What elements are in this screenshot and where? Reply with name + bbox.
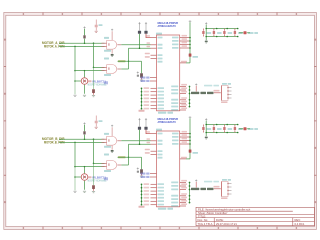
ground [205,41,208,43]
ground [92,192,95,193]
pin stub [150,173,157,175]
connector SVA pins [227,87,231,99]
wire labelled net [118,156,142,158]
connector SVB label [222,179,227,181]
wire to ground [74,71,76,95]
capacitor CB1 lead [95,116,97,121]
svg-text:TKG 4 T.B.A: TKG 4 T.B.A [198,222,213,226]
IC2A value below [158,112,166,114]
gate IC1BB value [104,170,111,172]
gate IC1BB [107,161,117,170]
IC right pins to LED rail [172,35,191,49]
capacitor CB [144,127,147,130]
supply arrow [189,116,192,118]
supply symbol [111,29,113,31]
svg-text:TITLE:: TITLE: [198,214,206,218]
ground [73,191,76,192]
wire to pin [186,62,190,64]
svg-text:REV:: REV: [295,218,301,222]
ground [111,150,114,152]
LEDA3 [223,29,225,37]
pin text [181,157,187,159]
gate IC1AB input pins [102,67,107,70]
pin stub [151,143,157,145]
resistor RA1 lead [84,39,86,44]
diode DB wire [239,128,243,130]
junction [93,67,95,69]
resistor in series [207,188,214,190]
svg-text:ATMEGA328-PU: ATMEGA328-PU [158,24,177,28]
header rail and IC pins [171,84,190,111]
pin text [181,61,187,63]
supply symbol [137,72,139,74]
ground [83,191,86,192]
transistor TA drain wire [84,71,86,78]
junction [84,138,86,140]
wire to connector [214,188,221,190]
resistor RB1 lead [84,135,86,140]
transistor TA [81,78,88,85]
resistor RB3 [189,150,192,153]
supply dot [137,171,139,173]
svg-text:FILE: /home/user/eagle/motor-c: FILE: /home/user/eagle/motor-controller.… [198,208,251,212]
wire vertical from DIR [93,43,95,67]
connector SVA value [221,101,228,103]
LED array rails [205,22,238,40]
gate IC1BA output pin [117,140,121,142]
svg-text:0.4 RC1: 0.4 RC1 [295,222,305,226]
ground [205,137,208,139]
LEDB4 [234,125,236,133]
LEDA3 label [228,32,233,34]
IC left pin stubs [151,151,157,154]
supply symbol [145,22,147,24]
ground net text [139,110,145,112]
IC right pins to LED rail [172,131,191,145]
ground [140,176,143,177]
wire long rail [189,118,191,149]
LEDA1 [202,29,204,37]
capacitor CA [138,31,141,34]
ground [95,31,98,32]
transistor TA gate wire [75,80,81,82]
diode DB [244,127,247,130]
gate IC1AB name [104,58,109,60]
lead [93,93,95,95]
xref flag [141,173,146,175]
IC2B value below [158,208,166,210]
pin wire [180,158,186,160]
diode DA label [248,32,254,34]
LEDA4 label [238,32,243,34]
pin stub [151,37,157,39]
supply symbol [138,22,140,24]
capacitor CA [144,31,147,34]
xref flag blue [104,177,108,180]
connector SVB value [221,197,228,199]
capacitor CA1 label [99,24,103,26]
IC grounded pin group [141,183,164,205]
gate IC1BB output pin [117,164,121,166]
IC2B name [156,129,162,131]
pin stub [150,77,157,79]
faint net text [204,181,212,183]
net label [118,60,126,62]
xref flag blue [104,81,108,84]
wire to IC [129,47,151,49]
resistor RB1 lead [84,125,86,131]
resistor RA3 label [193,56,199,58]
capacitor CA3 [140,73,143,78]
LEDB1 [202,125,204,133]
wire vertical [128,144,130,165]
gate IC1AA [107,40,117,49]
supply symbol [138,118,140,120]
wire to connector [214,92,221,94]
ground [95,127,98,128]
junction [74,142,76,144]
pin wire [180,62,186,64]
title block frame [196,207,314,225]
svg-text:MOSFET-NCHANNEL: MOSFET-NCHANNEL [88,179,107,183]
xref flag [141,176,146,178]
capacitor CB lead [145,120,147,127]
supply symbol [195,84,197,86]
IC grounded pin group [141,87,164,109]
transistor TB [81,174,88,181]
ferrite FB [191,188,199,190]
wire to IC [129,143,151,145]
resistor RB2 [92,185,95,189]
IC2A name [156,33,162,35]
IC2A microcontroller body [157,35,180,111]
connector SVA left edge [221,86,223,101]
transistor TB designator [88,176,92,178]
gate IC1AA input pins [102,43,107,46]
transistor TA designator [88,80,92,82]
wire rail lower [189,153,191,159]
connector SVA body [222,86,229,101]
junction [84,70,86,72]
gate IC1BA input pins [102,139,107,142]
diode DA wire [239,32,243,34]
wire [93,67,95,89]
gate IC1AB output pin [117,68,121,70]
LEDB3 [223,125,225,133]
capacitor CB [138,127,141,130]
LEDB3 label [228,128,233,130]
wire rail lower [189,57,191,63]
diode DB label [248,128,254,130]
wire text [214,90,220,92]
gate IC1BA value [104,146,111,148]
wire gate1 to IC [121,140,150,142]
supply symbol [195,180,197,182]
transistor TA source wire [84,85,86,94]
LEDA1 label [207,32,212,34]
wire gate2 out [121,164,128,166]
capacitor CA1 lead [95,27,97,30]
gate IC1AA value [104,50,111,52]
gate IC1BB input pins [102,163,107,166]
LEDB1 label [207,128,212,130]
junction [74,70,76,72]
connector SVB pins [227,183,231,195]
lead [141,78,143,80]
wire gate2 out [121,68,128,70]
ground [140,80,143,81]
LEDB2 [213,125,215,133]
supply symbol [145,118,147,120]
wire to ground [74,167,76,191]
pin stub [151,133,157,135]
gate IC1AA output pin [117,44,121,46]
junction [139,47,141,49]
gate power wire [111,31,113,40]
wire vertical from PWM [74,142,76,166]
connector SVB left edge [221,182,223,197]
capacitor CB1 [95,121,98,123]
wire DIR input [59,42,105,44]
svg-text:MOSFET-NCHANNEL: MOSFET-NCHANNEL [88,83,107,87]
pin stub [150,176,157,178]
pin stub [151,47,157,49]
gate power wire [111,146,113,150]
svg-text:Doc. No:: Doc. No: [198,218,209,222]
wire gate2 input A [94,162,105,164]
wire vertical from PWM [74,46,76,70]
IC left pin stubs [151,55,157,58]
capacitor CB lead [139,120,141,127]
wire long rail [189,22,191,53]
wire gate2 input B [75,166,105,168]
wire DIR input [59,138,105,140]
ferrite FB [191,92,199,94]
wire vertical [141,61,143,73]
LED array rails [205,118,238,136]
gate IC1AA name [104,37,109,39]
header rail and IC pins [171,180,190,207]
junction [84,166,86,168]
ground [73,95,76,96]
capacitor CA lead [139,24,141,31]
transistor TB gate wire [75,176,81,178]
transistor TB source wire [84,181,86,190]
junction [84,42,86,44]
diode DA stub [247,32,250,34]
diode DB stub [247,128,250,130]
LEDA2 label [217,32,222,34]
wire vertical [141,157,143,169]
LEDB4 label [238,128,243,130]
gate power wire [111,50,113,54]
junction [74,166,76,168]
LEDB2 label [217,128,222,130]
junction [74,46,76,48]
wire to pin [186,158,190,160]
xref flag [141,77,146,79]
ground [92,96,95,97]
junction [74,80,76,82]
lead [93,189,95,191]
svg-text:DATE:: DATE: [216,218,224,222]
IC2B microcontroller body [157,131,180,207]
junction [93,163,95,165]
supply arrow [189,20,192,22]
gate IC1BA [107,136,117,145]
gate IC1AB [107,65,117,74]
junction [128,61,130,63]
capacitor lead to wire [139,34,141,48]
capacitor CA1 [95,25,98,27]
junction [74,176,76,178]
supply symbol [83,26,85,28]
wire text [214,186,220,188]
pin stub [151,44,157,46]
wire gate1 to IC [121,44,150,46]
junction [93,42,95,44]
capacitor lead to IC [146,130,151,134]
junction [128,157,130,159]
capacitor CB1 lead [95,123,97,126]
wire gate2 input B [75,70,105,72]
pin stub [151,140,157,142]
supply symbol [111,125,113,127]
ground [83,95,86,96]
lead [141,174,143,176]
supply lead [195,182,197,188]
capacitor CA1 lead [95,20,97,25]
net label [118,156,126,158]
resistor RA3 [189,54,192,57]
resistor RA1 [83,35,85,38]
LEDA2 [213,29,215,37]
supply symbol [137,168,139,170]
wire vertical from DIR [93,139,95,163]
connector SVA label [222,83,227,85]
pin stub [150,80,157,82]
IC left pin names [145,131,163,158]
wire labelled net [118,60,142,62]
transistor TB drain wire [84,167,86,174]
svg-text:29.07.2014 17:21: 29.07.2014 17:21 [216,222,237,226]
diode DA [244,31,247,34]
wire vertical [128,48,130,69]
junction [139,143,141,145]
wire gate2 input A [94,66,105,68]
ground net text [139,206,145,208]
junction [93,138,95,140]
connector SVB body [222,182,229,197]
wire [93,163,95,185]
capacitor lead to IC [146,34,151,38]
IC left pin names [145,35,163,62]
gate IC1BA name [104,133,109,135]
supply dot [137,75,139,77]
faint net text [204,85,212,87]
capacitor CB1 label [99,120,103,122]
capacitor lead to wire [139,130,141,144]
resistor RB3 label [193,152,199,154]
resistor RA2 [92,89,95,93]
gate power wire [111,127,113,136]
gate IC1AB value [104,74,111,76]
wire PWM input [59,141,105,143]
supply symbol [83,122,85,124]
capacitor CA lead [145,24,147,31]
svg-text:ATMEGA328-PU: ATMEGA328-PU [158,120,177,124]
capacitor CB3 [140,169,143,174]
resistor RB1 [83,131,85,134]
resistor in series [207,92,214,94]
supply lead [195,86,197,92]
resistor RA1 lead [84,29,86,35]
gate IC1BB name [104,154,109,156]
xref flag [141,80,146,82]
LEDA4 [234,29,236,37]
ground [111,54,114,56]
wire PWM input [59,45,105,47]
